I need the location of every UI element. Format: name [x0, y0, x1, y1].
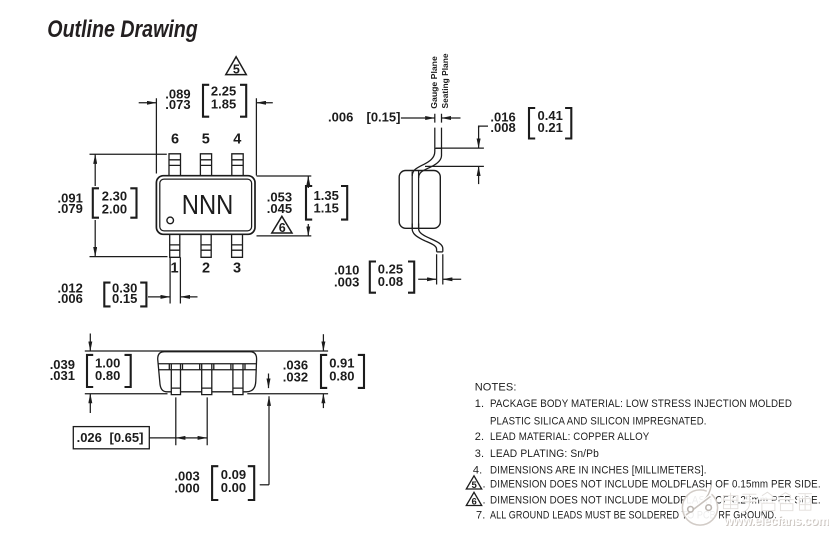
svg-text:PLASTIC SILICA AND SILICON IMP: PLASTIC SILICA AND SILICON IMPREGNATED. — [490, 416, 707, 428]
dimension label .003/.000 — [174, 469, 199, 496]
note 5 triangle flag — [466, 476, 485, 491]
pin 6 (top view) — [169, 154, 181, 176]
note flag triangle 5 — [226, 57, 247, 77]
leader elbow for .016/.008 — [479, 126, 488, 184]
svg-text:4: 4 — [233, 131, 241, 147]
marking NNN — [182, 189, 234, 220]
dimension .053/.045 extension lines — [257, 176, 312, 236]
svg-text:1.15: 1.15 — [314, 200, 339, 215]
svg-text:3.: 3. — [475, 448, 484, 460]
svg-text:.079: .079 — [58, 201, 83, 216]
svg-text:DIMENSION DOES NOT INCLUDE MOL: DIMENSION DOES NOT INCLUDE MOLDFLASH OF … — [490, 478, 821, 490]
svg-text:DIMENSIONS ARE IN INCHES [MILL: DIMENSIONS ARE IN INCHES [MILLIMETERS]. — [490, 465, 707, 477]
dimension .091/.079 extension lines — [90, 154, 168, 256]
svg-text:.006: .006 — [328, 109, 353, 124]
svg-text:6: 6 — [279, 221, 286, 235]
svg-text:Gauge Plane: Gauge Plane — [429, 56, 439, 109]
bracket [0.25/0.08] — [370, 262, 414, 293]
svg-text:5: 5 — [472, 480, 478, 491]
package body top view — [156, 176, 255, 235]
note 7 — [476, 510, 777, 522]
pin number 2 — [202, 261, 210, 277]
dimension .006 [0.15] label — [328, 109, 400, 124]
dimension .006 arrows — [401, 117, 461, 119]
svg-text:.003: .003 — [334, 274, 359, 289]
svg-text:.032: .032 — [283, 369, 308, 384]
bracket [0.41/0.21] — [529, 108, 571, 139]
dimension .036/.032 arrows — [322, 334, 324, 408]
svg-text:4.: 4. — [473, 465, 482, 477]
svg-text:[0.15]: [0.15] — [367, 109, 401, 124]
svg-text:www.elecfans.com: www.elecfans.com — [723, 514, 829, 528]
note 6 triangle flag — [466, 492, 485, 507]
svg-text:1.85: 1.85 — [211, 97, 236, 112]
svg-text:[0.65]: [0.65] — [110, 430, 144, 445]
side view upper lead bend — [412, 148, 441, 178]
svg-text:.: . — [483, 478, 486, 490]
note 4 — [473, 465, 707, 477]
title: Outline Drawing — [47, 16, 198, 43]
side view lead section through body — [412, 171, 418, 229]
pin 3 (top view) — [232, 234, 243, 257]
bracket [2.25/1.85] — [203, 85, 246, 117]
svg-text:PACKAGE BODY MATERIAL: LOW STR: PACKAGE BODY MATERIAL: LOW STRESS INJECT… — [490, 398, 792, 410]
svg-text:Seating Plane: Seating Plane — [440, 53, 450, 108]
svg-text:5: 5 — [202, 131, 210, 147]
svg-text:NOTES:: NOTES: — [475, 381, 517, 393]
svg-text:.000: .000 — [174, 481, 199, 496]
note 3 — [475, 448, 599, 460]
bracket [0.09/0.00] — [212, 466, 254, 500]
watermark logo circle — [682, 485, 717, 525]
svg-text:0.80: 0.80 — [95, 368, 120, 383]
label Gauge Plane — [429, 56, 439, 109]
bracket [0.30/0.15] — [104, 283, 146, 307]
lead tip extension lines below (side view) — [437, 254, 443, 284]
side view package body — [399, 171, 440, 229]
svg-text:Outline Drawing: Outline Drawing — [47, 16, 198, 43]
svg-text:7.: 7. — [476, 510, 485, 522]
svg-text:0.00: 0.00 — [221, 480, 246, 495]
dimension .012/.006 arrows — [148, 296, 198, 298]
gauge plane extension line — [436, 147, 484, 149]
bracket [1.35/1.15] — [306, 186, 347, 220]
svg-text:6: 6 — [171, 131, 179, 147]
pin 5 (top view) — [200, 154, 211, 176]
dimension label .089/.073 — [165, 86, 190, 112]
svg-text:0.21: 0.21 — [538, 120, 563, 135]
svg-text:.008: .008 — [490, 120, 515, 135]
bracket [2.30/2.00] — [93, 188, 137, 217]
svg-text:3: 3 — [233, 261, 241, 277]
dimension .039/.031 arrows — [89, 334, 91, 414]
front view lead 2 — [200, 364, 214, 395]
pin 1 (top view) — [170, 234, 180, 257]
dimension label .036/.032 — [283, 358, 308, 385]
dimension label .012/.006 — [58, 280, 83, 306]
front view top extension line — [85, 350, 328, 352]
front view bottom (seating) extension line — [85, 393, 328, 395]
dimension .053/.045 arrows — [307, 176, 309, 236]
dimension .089/.073 extension lines — [156, 98, 256, 175]
notes heading — [475, 381, 517, 393]
svg-text:2.: 2. — [475, 431, 484, 443]
svg-text:.031: .031 — [50, 368, 75, 383]
pitch leader lines — [176, 397, 207, 445]
dimension .089/.073 arrows — [139, 102, 273, 104]
svg-text:0.80: 0.80 — [329, 368, 354, 383]
front view lead 3 — [231, 364, 245, 395]
svg-text:2.00: 2.00 — [102, 201, 127, 216]
label Seating Plane — [440, 53, 450, 108]
pin number 5 — [202, 131, 210, 147]
pin 1 indicator dot — [167, 217, 174, 224]
svg-text:.006: .006 — [58, 291, 83, 306]
front view lead 1 — [169, 364, 182, 395]
bracket [0.91/0.80] — [321, 355, 364, 388]
note 1 line 2 — [490, 416, 707, 428]
svg-text:NNN: NNN — [182, 189, 234, 220]
dimension label .053/.045 — [267, 190, 292, 216]
watermark www.elecfans.com — [723, 514, 829, 529]
pin number 6 — [171, 131, 179, 147]
note flag triangle 6 — [272, 216, 292, 235]
side view lower lead bend — [412, 224, 443, 252]
pin number 3 — [233, 261, 241, 277]
svg-text:1: 1 — [171, 261, 179, 277]
standoff dimension arrows — [260, 374, 269, 485]
gauge/seating plane dashed extensions above lead tip — [435, 114, 442, 148]
dimension .091/.079 arrows — [94, 154, 96, 256]
svg-text:.026: .026 — [77, 430, 102, 445]
svg-text:0.15: 0.15 — [112, 291, 137, 306]
pin number 1 — [171, 261, 179, 277]
dimension .016/.008 label — [490, 110, 515, 135]
svg-text:2: 2 — [202, 261, 210, 277]
svg-text:5: 5 — [233, 63, 240, 77]
dimension box .026 [0.65] — [73, 427, 176, 449]
watermark chinese characters — [723, 491, 812, 511]
front view package body — [158, 352, 257, 392]
seating plane extension line — [425, 165, 484, 167]
dimension .010/.003 label — [334, 262, 359, 289]
svg-text:1.: 1. — [475, 398, 484, 410]
dimension .012/.006 extension lines — [170, 257, 180, 303]
front view mold parting lines — [158, 364, 256, 370]
note 6 — [490, 495, 821, 507]
dimension label .039/.031 — [50, 357, 75, 383]
svg-text:LEAD PLATING: Sn/Pb: LEAD PLATING: Sn/Pb — [490, 448, 599, 460]
svg-text:.045: .045 — [267, 201, 292, 216]
note 1 — [475, 398, 792, 410]
dimension label .091/.079 — [58, 191, 83, 217]
bracket [1.00/0.80] — [87, 355, 131, 387]
dimension .010/.003 arrows — [418, 278, 461, 280]
svg-text:0.08: 0.08 — [378, 274, 403, 289]
note 2 — [475, 431, 650, 443]
note 5 — [490, 478, 821, 490]
svg-text:.: . — [483, 495, 486, 507]
svg-text:LEAD MATERIAL: COPPER ALLOY: LEAD MATERIAL: COPPER ALLOY — [490, 431, 650, 443]
pitch dimension arrows — [176, 437, 207, 439]
pin 2 (top view) — [201, 234, 211, 257]
pin number 4 — [233, 131, 241, 147]
svg-text:6: 6 — [472, 497, 477, 508]
svg-text:.073: .073 — [165, 97, 190, 112]
pin 4 (top view) — [232, 154, 243, 176]
